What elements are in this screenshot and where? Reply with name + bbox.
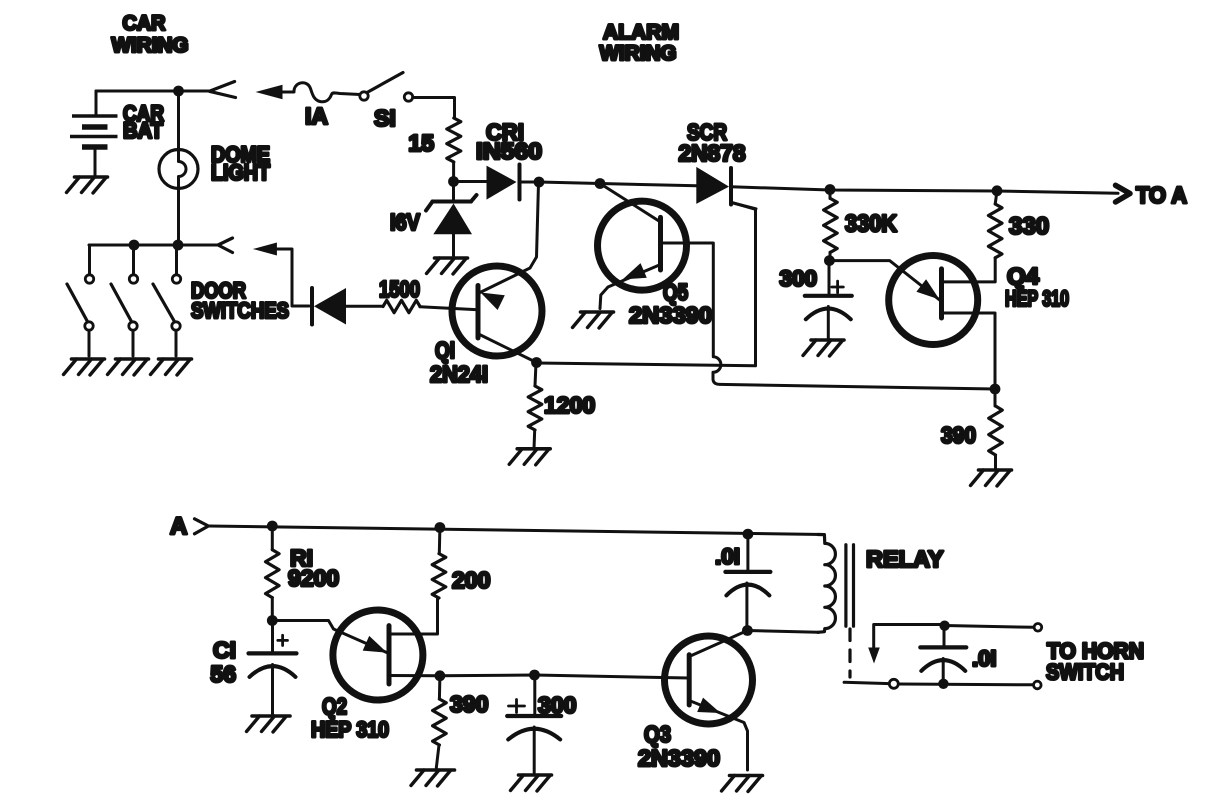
transistor Q4 HEP 310	[829, 256, 995, 390]
node 330K top	[825, 184, 836, 195]
resistor 330	[995, 191, 997, 204]
node horn cap bottom	[938, 679, 948, 689]
ground Q5 emitter	[573, 312, 614, 328]
wire resistor 15 to node	[452, 162, 455, 182]
svg-text:HEP 310: HEP 310	[1005, 286, 1069, 311]
resistor 330K	[829, 190, 832, 199]
capacitor C1 56	[249, 621, 297, 715]
terminal circle bottom right	[1034, 681, 1042, 689]
svg-text:1500: 1500	[379, 276, 420, 302]
ground Q3 emitter	[722, 776, 763, 792]
node R1 bottom / C1 top	[267, 615, 278, 626]
ground below battery	[67, 177, 108, 193]
node: door bus junction 2	[173, 240, 184, 251]
svg-text:2N24I: 2N24I	[430, 361, 488, 387]
svg-text:330: 330	[1009, 213, 1049, 240]
wire top contact	[945, 626, 1034, 628]
relay contact arrow	[874, 625, 945, 651]
svg-text:I6V: I6V	[390, 209, 421, 235]
svg-text:Q2: Q2	[322, 693, 347, 719]
svg-text:SI: SI	[374, 105, 396, 131]
node 330 top	[992, 185, 1003, 196]
capacitor 300 (bottom) with +	[507, 675, 561, 773]
battery CAR BAT	[70, 91, 118, 177]
relay coil	[818, 535, 835, 633]
ground door switch 2	[108, 359, 149, 375]
connector fork A	[195, 519, 209, 534]
wire Q5 base down to 390 node (hops over collector wire)	[661, 243, 996, 389]
wire Q2 bus to Q3 base	[440, 675, 689, 678]
svg-text:Q3: Q3	[644, 721, 671, 747]
wire node to SCR anode	[600, 184, 697, 186]
door switch 1	[67, 245, 94, 356]
node horn cap top	[939, 621, 949, 631]
svg-text:200: 200	[452, 567, 490, 593]
door switch 3	[153, 245, 181, 356]
connector fork to alarm wiring (top)	[209, 82, 235, 98]
svg-text:.0I: .0I	[972, 646, 996, 671]
ground below capacitor 300	[803, 340, 844, 356]
arrow into door bus	[253, 243, 277, 256]
svg-text:LIGHT: LIGHT	[211, 160, 270, 185]
svg-text:1200: 1200	[544, 392, 595, 418]
wire A bus to relay	[208, 526, 823, 535]
switch S1	[360, 92, 368, 100]
svg-text:A: A	[170, 513, 187, 540]
diode (door sense, points left)	[312, 288, 383, 325]
svg-text:TO A: TO A	[1136, 182, 1187, 208]
wire: door switch bus	[89, 244, 218, 247]
svg-text:CI: CI	[213, 637, 236, 663]
svg-text:SWITCH: SWITCH	[1046, 660, 1124, 685]
svg-text:WIRING: WIRING	[112, 34, 189, 57]
node R1 top	[267, 521, 278, 532]
svg-text:ALARM: ALARM	[603, 21, 679, 44]
relay core bars	[846, 545, 854, 627]
node .01 top	[743, 529, 754, 540]
resistor 390 (upper right)	[994, 389, 997, 406]
svg-text:IN560: IN560	[476, 138, 542, 164]
svg-text:300: 300	[779, 266, 817, 291]
node 330K bottom / Q4 emitter	[824, 255, 835, 266]
ground door switch 1	[64, 359, 105, 375]
svg-text:WIRING: WIRING	[600, 42, 677, 65]
ground below 300 (bottom)	[511, 775, 552, 791]
ground door switch 3	[151, 359, 192, 375]
wire CR1 node to Q5 node	[539, 182, 600, 184]
transistor Q2 HEP 310	[272, 598, 440, 700]
ground below 1200	[509, 449, 550, 465]
terminal circle top	[1034, 624, 1042, 632]
node Q3 collector / .01 bottom	[742, 625, 753, 636]
resistor 1500	[383, 300, 420, 312]
transistor Q3 2N3390	[665, 631, 753, 771]
svg-text:2N878: 2N878	[679, 140, 746, 166]
ground below C1	[247, 716, 291, 732]
node 200 top	[435, 522, 446, 533]
node: battery/dome-light junction	[173, 86, 184, 97]
svg-text:.0I: .0I	[715, 544, 740, 569]
ground below 390 (bottom)	[411, 770, 455, 786]
svg-text:390: 390	[450, 691, 488, 717]
relay armature dashed line	[848, 629, 851, 677]
svg-text:2N3390: 2N3390	[629, 302, 712, 328]
wire bottom contact	[844, 682, 1033, 685]
wire node to relay coil bottom	[747, 631, 818, 633]
wire Q1 collector to SCR gate	[537, 203, 756, 366]
svg-text:300: 300	[538, 692, 576, 718]
wire S1 to resistor 15	[413, 98, 455, 119]
diode CR1 1N560	[459, 165, 539, 200]
wire 1500 to Q1 base	[420, 307, 478, 310]
door switch 2	[111, 245, 138, 356]
ground below 390	[971, 470, 1012, 486]
resistor R1 9200	[271, 526, 274, 550]
node Q5 collector tap	[595, 178, 606, 189]
svg-text:SWITCHES: SWITCHES	[191, 298, 289, 323]
svg-text:QI: QI	[435, 337, 455, 363]
resistor 15	[447, 118, 461, 162]
transistor Q1 2N241	[452, 183, 542, 363]
node Q1 collector	[531, 357, 542, 368]
zener diode 16V	[426, 182, 477, 256]
svg-text:RELAY: RELAY	[866, 546, 944, 572]
transistor Q5 2N3390	[598, 184, 687, 309]
capacitor .01 (across relay coil)	[725, 534, 770, 630]
capacitor .01 (horn contacts)	[920, 626, 966, 684]
node 390 top (Q4 bottom)	[990, 384, 1001, 395]
svg-text:9200: 9200	[288, 565, 339, 591]
resistor 390 (bottom)	[438, 676, 442, 699]
lamp DOME LIGHT	[159, 91, 198, 245]
svg-text:IA: IA	[305, 103, 328, 129]
svg-text:2N3390: 2N3390	[638, 745, 720, 771]
resistor 1200	[535, 363, 536, 387]
svg-text:BAT: BAT	[123, 118, 164, 143]
fuse 1A	[281, 83, 360, 102]
node after CR1	[534, 177, 545, 188]
svg-text:15: 15	[408, 130, 434, 156]
node 300 top (bottom section)	[529, 670, 540, 681]
svg-text:HEP 310: HEP 310	[311, 717, 389, 742]
terminal circle bottom left	[889, 679, 898, 688]
node: supply node after resistor 15	[448, 176, 459, 187]
node: door bus junction 1	[129, 240, 140, 251]
svg-text:390: 390	[941, 422, 976, 448]
svg-text:56: 56	[210, 661, 236, 687]
resistor 200	[438, 528, 442, 554]
connector fork to alarm wiring (lower)	[218, 238, 233, 253]
wire SCR cathode to TO A	[731, 187, 1118, 194]
svg-text:330K: 330K	[845, 211, 898, 238]
arrow into car wiring (top)	[256, 85, 283, 99]
SCR 2N878	[696, 167, 756, 209]
capacitor 300 (top section)	[805, 261, 852, 339]
node Q2 collector bus	[435, 670, 446, 681]
svg-text:CAR: CAR	[123, 12, 166, 35]
ground below zener	[427, 258, 468, 274]
arrow TO A	[1116, 185, 1131, 202]
wire: battery top bus	[96, 90, 209, 93]
